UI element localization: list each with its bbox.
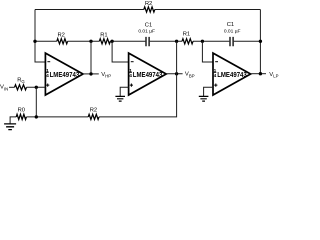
capacitor C1 (first integrator) — [146, 37, 149, 46]
svg-text:VIN: VIN — [0, 85, 8, 92]
svg-text:R2: R2 — [145, 1, 152, 7]
wire top feedback rail — [35, 9, 260, 11]
svg-text:R1: R1 — [100, 32, 107, 38]
svg-text:0.01 µF: 0.01 µF — [138, 29, 155, 35]
wire U3 plus input to ground — [204, 87, 213, 96]
pin minus U2 — [131, 61, 134, 63]
resistor RG (input) — [15, 85, 27, 90]
wire VHP vertical — [90, 41, 92, 74]
node junction dot VBP / mid rail — [175, 40, 178, 43]
node junction dot VLP / C1 — [259, 40, 262, 43]
svg-text:RG: RG — [17, 78, 25, 84]
wire U2 plus input to ground — [120, 87, 128, 96]
wire mid rail segment B — [150, 40, 230, 42]
svg-text:VBP: VBP — [185, 72, 195, 79]
node junction dot U3 inverting branch — [201, 40, 204, 43]
resistor R2 (top feedback) — [144, 7, 155, 12]
wire VIN lead — [9, 86, 15, 88]
svg-text:VHP: VHP — [101, 72, 111, 79]
svg-text:C1: C1 — [145, 22, 152, 28]
pin plus U1 — [46, 84, 49, 87]
resistor R1 (second integrator) — [182, 39, 193, 44]
ground G3 (U3 non-inverting) — [199, 96, 209, 101]
svg-text:R2: R2 — [90, 107, 97, 113]
node VLP output dot — [259, 72, 262, 75]
ground G2 (U2 non-inverting) — [115, 96, 125, 101]
svg-text:LME49743: LME49743 — [217, 72, 247, 79]
wire U2 output stub — [166, 73, 182, 75]
wire VBP vertical to bottom rail and bottom rail left run — [10, 41, 177, 123]
node junction dot left vertical / mid rail — [33, 40, 36, 43]
svg-text:LME49743: LME49743 — [133, 72, 163, 79]
op-amp U1 LME49743 — [45, 53, 83, 95]
resistor RQ (bottom feedback) — [88, 114, 99, 119]
wire U1 output stub — [83, 73, 99, 75]
op-amp U2 LME49743 — [129, 53, 167, 95]
pin minus U1 — [47, 61, 50, 63]
node junction dot VHP / mid rail — [89, 40, 92, 43]
wire VIN junction down to bottom rail — [35, 87, 37, 117]
svg-text:0.01 µF: 0.01 µF — [224, 28, 241, 34]
capacitor C1 (second integrator) — [230, 37, 233, 46]
node VHP output dot — [89, 72, 92, 75]
wire mid rail segment A — [35, 40, 145, 42]
pin plus U2 — [130, 84, 133, 87]
op-amp U3 LME49743 — [213, 53, 251, 95]
wire U3 inverting input drop — [202, 41, 213, 62]
ground G1 (input network) — [4, 124, 16, 130]
resistor R2 (VHP to inverting input U1) — [57, 39, 68, 44]
svg-text:R0: R0 — [18, 107, 25, 113]
wire U2 inverting input drop — [112, 41, 129, 62]
resistor R1 (first integrator) — [99, 39, 110, 44]
wire left vertical to inverting input U1 — [35, 10, 45, 63]
pin minus U3 — [215, 61, 218, 63]
svg-text:C1: C1 — [227, 22, 234, 28]
svg-text:R1: R1 — [183, 31, 190, 37]
wire mid rail segment C — [234, 40, 261, 42]
svg-text:VLP: VLP — [269, 72, 278, 79]
wire U3 output stub — [251, 73, 266, 75]
node junction dot U2 inverting branch — [110, 40, 113, 43]
node junction dot bottom rail / R0 — [35, 115, 38, 118]
svg-text:R2: R2 — [57, 33, 64, 39]
node VBP output dot — [175, 72, 178, 75]
svg-text:LME49743: LME49743 — [50, 72, 80, 79]
node junction dot VIN branch — [35, 86, 38, 89]
wire RG to U1 plus input — [27, 86, 46, 88]
pin plus U3 — [214, 84, 217, 87]
resistor R0 — [16, 114, 26, 119]
wire right vertical VLP feedback — [259, 10, 261, 74]
